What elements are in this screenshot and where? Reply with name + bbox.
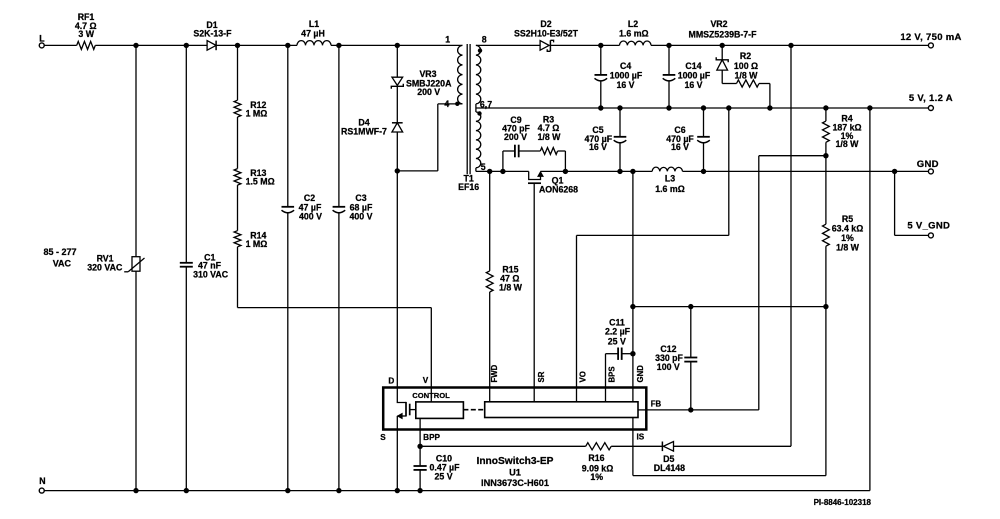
svg-text:VAC: VAC [53,259,72,269]
capacitor C10 [414,446,461,490]
U1 secondary controller box [485,402,638,418]
svg-text:1/8 W: 1/8 W [836,139,860,149]
capacitor C3 [333,45,373,490]
varistor RV1 [87,45,144,490]
resistor R13 [234,168,275,187]
wire 12V rail down to D5 [790,45,792,446]
T1 polarity dot pin 4 [455,102,459,106]
wire FB to divider [759,156,826,410]
svg-text:16 V: 16 V [684,80,702,90]
wire 5V rail down to bottom rail [44,108,869,491]
svg-text:FB: FB [651,400,662,409]
svg-text:D: D [388,377,394,386]
terminal 5V_GND output [895,171,951,238]
T1 polarity dot pin 6,7 [477,111,481,115]
capacitor C4 [595,45,643,108]
wire 5V rail (pins 6,7) [476,107,928,109]
node 12V rail junction D5 feed [788,43,793,48]
svg-text:R2: R2 [740,51,751,61]
svg-text:R16: R16 [588,453,604,463]
wire jog to T1 pin 4 [397,104,462,171]
node 12V rail junction C4 [598,43,603,48]
svg-text:1/8 W: 1/8 W [735,71,759,81]
node return rail junction R3 [563,169,568,174]
resistor R3 [519,115,566,172]
node top rail junction C3 [336,43,341,48]
T1 polarity dot pin 8 [478,48,482,52]
svg-text:1.6 mΩ: 1.6 mΩ [619,28,649,38]
svg-text:100 Ω: 100 Ω [734,61,758,71]
svg-text:FWD: FWD [490,364,499,382]
resistor R2 [734,51,759,87]
U1 pin labels [380,376,661,442]
resistor R4 [823,108,862,156]
wire BPP to R16 [420,445,586,447]
node bottom rail junction S pin [395,488,400,493]
svg-text:1/8 W: 1/8 W [836,243,860,253]
svg-text:47 µH: 47 µH [301,28,325,38]
svg-text:AON6268: AON6268 [539,185,578,195]
node top rail junction C1 [184,43,189,48]
svg-text:L3: L3 [665,174,675,184]
resistor R12 [234,45,267,118]
svg-text:8: 8 [482,35,487,45]
svg-text:U1: U1 [509,467,521,477]
wire R16 to D5 [611,445,662,447]
wire 12V rail L2 to terminal [651,44,928,46]
node return rail junction GND pin [630,169,635,174]
svg-text:PI-8846-102318: PI-8846-102318 [814,498,872,507]
node bottom rail junction C10 [417,488,422,493]
node GND-line left junction [630,304,635,309]
inductor L1 [297,19,331,45]
node BPP/C10 junction [417,444,422,449]
U1 BPP internal lead [419,418,421,429]
svg-text:1.5 MΩ: 1.5 MΩ [246,177,275,187]
wire VR2 to R2 [722,70,736,83]
node 12V rail junction C14 [666,43,671,48]
terminal GND output [917,159,939,174]
svg-text:SS2H10-E3/52T: SS2H10-E3/52T [514,28,579,38]
svg-text:5: 5 [481,162,486,172]
resistor R5 [823,156,864,307]
node 5V rail junction C5 [617,105,622,110]
wire top rail D1 to L1 [216,44,297,46]
node 5V rail junction C14 [666,105,671,110]
svg-text:VR2: VR2 [710,19,727,29]
T1 secondary winding pins 8 to 6,7 [476,45,481,112]
svg-text:S2K-13-F: S2K-13-F [193,29,232,39]
U1 S pin wire to bottom rail [396,430,398,491]
wire R14 down and right to V pin [238,247,432,388]
wire D5 to 12V feed [674,445,792,447]
wire D4 to D-node junction [396,132,398,171]
node return rail junction C9 [500,169,505,174]
svg-text:400 V: 400 V [350,212,373,222]
svg-text:L: L [39,33,45,43]
svg-text:DL4148: DL4148 [654,463,685,473]
wire GND pin net [633,171,826,387]
wire top rail L1 to T1 pin1 [331,44,463,46]
svg-text:100 V: 100 V [657,362,680,372]
input label 85-277 VAC [43,247,76,269]
inductor L2 [619,19,651,46]
svg-text:L2: L2 [628,19,638,29]
node bottom rail junction C1 [184,488,189,493]
svg-text:1/8 W: 1/8 W [499,283,523,293]
wire 12V rail pin8 to D2 [476,44,540,46]
node bottom rail junction C3 [336,488,341,493]
MOSFET Q1 [528,171,578,387]
diode D1 [193,20,232,50]
svg-text:MMSZ5239B-7-F: MMSZ5239B-7-F [689,29,758,39]
U1 internal MOSFET [397,388,416,430]
wire VR3 to D4 [396,86,398,123]
svg-text:25 V: 25 V [435,472,453,482]
svg-text:5 V_GND: 5 V_GND [907,221,950,232]
wire top rail RF1 to D1 [95,44,207,46]
svg-text:16 V: 16 V [589,142,607,152]
wire return rail L3 to GND terminal [683,170,929,172]
svg-text:1/8 W: 1/8 W [538,132,562,142]
svg-text:200 V: 200 V [504,132,527,142]
capacitor C5 [585,108,627,171]
node 5V rail junction return [867,105,872,110]
resistor RF1 [75,12,97,49]
svg-text:63.4 kΩ: 63.4 kΩ [832,224,864,234]
inductor L3 [652,167,685,194]
resistor R15 [486,171,522,387]
wire VO sense from 5V rail [577,108,729,388]
svg-text:INN3673C-H601: INN3673C-H601 [481,478,549,488]
svg-text:16 V: 16 V [616,80,634,90]
node 12V rail junction VR2 [720,43,725,48]
node R4/R5/FB junction [823,153,828,158]
node bottom rail junction C2 [285,488,290,493]
node return rail junction C5 [617,169,622,174]
node D4/pin4/D junction [395,168,400,173]
resistor R16 [582,443,614,482]
node top rail junction R12 [235,43,240,48]
capacitor C1 [180,45,229,490]
zener VR2 [689,19,758,70]
svg-text:1.6 mΩ: 1.6 mΩ [655,184,685,194]
node top rail junction VR3 [395,43,400,48]
node bottom rail junction RV1 [133,488,138,493]
wire D column down to D pin of U1 [396,171,398,388]
T1 core [467,44,470,174]
svg-text:200 V: 200 V [417,87,440,97]
U1 rotated pin labels [490,364,645,382]
node 5V rail junction C4 [598,105,603,110]
U1 internal pin leads [490,388,647,430]
svg-text:85 - 277: 85 - 277 [43,247,76,257]
svg-text:2.2 µF: 2.2 µF [605,326,631,336]
svg-text:GND: GND [636,365,645,383]
node 5V rail junction R2 [767,105,772,110]
node C12 bottom / FB line junction [688,407,693,412]
svg-text:RS1MWF-7: RS1MWF-7 [341,127,387,137]
terminal L [39,33,76,48]
node 5V rail junction R4 [823,105,828,110]
capacitor C9 [502,115,530,172]
capacitor C11 [605,318,633,388]
svg-text:4: 4 [444,99,449,109]
capacitor C2 [282,45,323,490]
U1 FB pin wire [646,409,759,411]
svg-text:R5: R5 [842,214,853,224]
terminal N [39,476,45,493]
terminal 5V output [909,93,953,110]
svg-text:IS: IS [637,433,645,442]
svg-text:C14: C14 [685,61,701,71]
svg-text:SR: SR [537,371,546,382]
svg-text:320 VAC: 320 VAC [87,263,123,273]
node C11 right junction [630,351,635,356]
capacitor C12 [655,307,697,410]
svg-text:400 V: 400 V [299,212,322,222]
wire R12 to R13 [237,117,239,169]
U1 V pin internal lead [430,388,432,402]
svg-text:1: 1 [445,35,450,45]
wire BPP node [419,430,421,447]
wire 12V rail D2 to L2 [550,44,619,46]
svg-text:N: N [39,476,45,486]
svg-text:C4: C4 [620,61,631,71]
svg-text:BPS: BPS [608,366,617,382]
svg-text:GND: GND [917,159,939,170]
svg-text:12 V, 750 mA: 12 V, 750 mA [900,32,961,43]
node top rail junction C2 [285,43,290,48]
node return rail junction C6 [701,169,706,174]
wire return rail Q1 to L3 [541,170,653,172]
resistor R14 [234,230,267,249]
svg-text:EF16: EF16 [458,182,479,192]
wire R2 to 5V rail [759,84,770,109]
svg-text:310 VAC: 310 VAC [193,270,229,280]
terminal 12V output [900,32,961,48]
svg-text:InnoSwitch3-EP: InnoSwitch3-EP [477,456,554,467]
T1 secondary winding pins 6,7 to 5 [476,112,481,171]
node 5V rail junction VO sense [726,105,731,110]
svg-text:BPP: BPP [423,433,440,442]
T1 reference labels [458,173,479,192]
node 5V rail junction C6 [701,105,706,110]
capacitor C6 [666,108,710,171]
svg-text:V: V [423,376,429,385]
node top rail junction RV1 [133,43,138,48]
node R5 bottom junction [823,304,828,309]
node C12 top junction [688,304,693,309]
op IC U1 InnoSwitch3-EP outline [383,388,646,430]
svg-text:1 MΩ: 1 MΩ [246,108,268,118]
node return rail junction R15 [487,169,492,174]
svg-text:1%: 1% [590,472,603,482]
transformer T1 primary winding (pins 1-4) [458,45,463,104]
svg-text:VO: VO [578,371,587,382]
svg-text:5 V, 1.2 A: 5 V, 1.2 A [909,93,953,104]
svg-text:S: S [380,433,386,442]
svg-text:1 MΩ: 1 MΩ [246,239,268,249]
diode D5 [654,442,685,474]
svg-text:3 W: 3 W [78,29,94,39]
U1 CONTROL box [412,391,463,419]
svg-text:16 V: 16 V [671,142,689,152]
T1 pin number labels [444,35,492,173]
wire secondary return rail pin5 to Q1 [476,170,529,172]
capacitor C14 [663,45,711,108]
diode D4 [341,118,403,137]
wire R13 to R14 [237,185,239,231]
TVS VR3 [391,45,452,97]
wire R5 bottom to IS return [633,307,826,476]
diode D2 (schottky) [514,19,579,51]
U1 dashed link [463,409,484,411]
svg-text:25 V: 25 V [608,336,626,346]
U1 reference labels [477,456,554,488]
node return rail junction 5V_GND [892,169,897,174]
